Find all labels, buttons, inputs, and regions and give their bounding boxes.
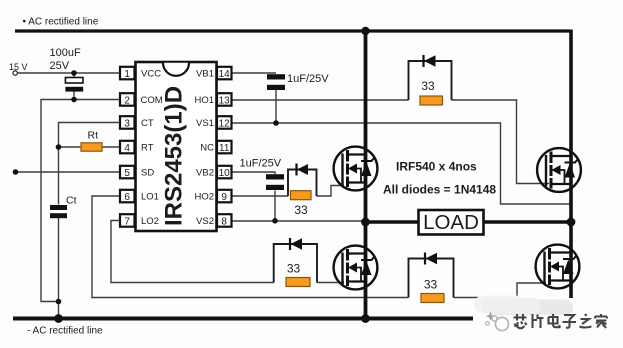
svg-text:1: 1 bbox=[124, 69, 130, 80]
gate network D (LO1): loop wire bbox=[409, 259, 454, 298]
svg-text:14: 14 bbox=[219, 69, 231, 80]
pin 7 box bbox=[120, 214, 135, 227]
node COM/CT bottom junction bbox=[56, 299, 62, 305]
watermark logo small dot bbox=[486, 322, 490, 326]
left bridge leg rail bbox=[364, 31, 368, 319]
svg-text:25V: 25V bbox=[50, 60, 70, 72]
gate network C (LO2): loop wire bbox=[274, 244, 317, 283]
wire LO2 pin7 route to bottom-left gate network bbox=[111, 221, 274, 283]
svg-text:3: 3 bbox=[124, 118, 130, 129]
watermark text 之 bbox=[580, 314, 592, 328]
wire VS1 pin12 to right half-bridge midpoint bbox=[232, 123, 571, 204]
node C2/VS2 junction bbox=[272, 218, 278, 224]
capacitor C1 1uF/25V bootstrap bbox=[267, 74, 285, 90]
svg-text:33: 33 bbox=[424, 278, 438, 292]
svg-text:6: 6 bbox=[124, 192, 130, 203]
IC U1 IRS2453(1)D bbox=[120, 62, 232, 231]
wire LO2 gate network to Q3 gate bbox=[317, 282, 344, 284]
svg-text:Rt: Rt bbox=[88, 130, 99, 142]
wire 100uF cap top lead bbox=[73, 73, 75, 78]
svg-text:VCC: VCC bbox=[141, 69, 161, 80]
wire VB2 pin10 to bootstrap cap C2 bbox=[232, 172, 276, 174]
svg-text:4: 4 bbox=[124, 143, 130, 154]
svg-text:33: 33 bbox=[287, 262, 301, 276]
node C1/VS1 junction bbox=[273, 120, 279, 126]
svg-text:VB1: VB1 bbox=[196, 69, 214, 80]
svg-text:CT: CT bbox=[141, 118, 154, 129]
svg-text:LOAD: LOAD bbox=[423, 211, 479, 234]
positive AC rectified bus (top rail) bbox=[15, 29, 570, 32]
node CT/RT junction bbox=[56, 144, 62, 150]
node right bridge midpoint bbox=[567, 218, 576, 227]
svg-text:IRF540 x 4nos: IRF540 x 4nos bbox=[396, 160, 477, 174]
svg-text:HO1: HO1 bbox=[194, 95, 214, 106]
node VCC junction bbox=[71, 70, 77, 76]
watermark text 家 bbox=[595, 314, 607, 328]
node top rail / left leg junction bbox=[361, 27, 369, 35]
right bridge leg rail bbox=[569, 30, 573, 299]
svg-text:LO2: LO2 bbox=[141, 216, 159, 227]
transistor Q2 IRF540 top-right bbox=[537, 148, 581, 192]
pin 4 box bbox=[120, 141, 135, 154]
wire HO1 pin13 to top gate network bbox=[232, 99, 409, 101]
pin 12 box bbox=[217, 116, 232, 129]
capacitor C2 1uF/25V bootstrap bbox=[266, 174, 284, 190]
svg-text:12: 12 bbox=[219, 118, 231, 129]
svg-text:2: 2 bbox=[124, 95, 130, 106]
pin 9 box bbox=[217, 190, 232, 203]
pin 5 box bbox=[120, 166, 135, 179]
wire COM pin2 to left vertical bus bbox=[41, 100, 120, 302]
svg-text:13: 13 bbox=[219, 95, 231, 106]
pin 11 box bbox=[217, 141, 232, 154]
wire Rt right lead to RT pin4 bbox=[102, 146, 120, 148]
svg-text:LO1: LO1 bbox=[141, 192, 159, 203]
LOAD box bbox=[367, 210, 571, 235]
node 15V terminal circle bbox=[13, 71, 17, 75]
wire 100uF cap bottom lead to COM node bbox=[73, 91, 75, 100]
wire C2 bottom lead to VS2 line bbox=[274, 191, 276, 221]
diode D1 bbox=[424, 55, 436, 67]
wire HO2 gate network to Q1 gate bbox=[317, 186, 345, 197]
wire SD pin5 stub bbox=[16, 171, 121, 173]
pin 10 box bbox=[217, 166, 232, 179]
transistor Q4 IRF540 bottom-right bbox=[536, 245, 580, 289]
diode D3 bbox=[290, 238, 302, 250]
gate network A (HO1): loop wire bbox=[409, 61, 452, 100]
svg-text:RT: RT bbox=[141, 143, 154, 154]
wire LO1 pin6 route to bottom-right gate network bbox=[92, 196, 409, 298]
pin 8 box bbox=[217, 214, 232, 227]
wire HO1 gate network to Q2 gate bbox=[452, 100, 550, 184]
svg-text:SD: SD bbox=[141, 168, 154, 179]
svg-text:33: 33 bbox=[421, 79, 435, 93]
svg-text:15 V: 15 V bbox=[9, 62, 28, 72]
watermark logo face bbox=[495, 317, 508, 330]
resistor 33 (D) bbox=[421, 294, 444, 303]
watermark text 芯 bbox=[514, 314, 527, 328]
wire C1 bottom lead to VS1 line bbox=[275, 90, 277, 123]
node COM junction bbox=[71, 97, 77, 103]
wire LO1 gate network to Q4 gate bbox=[454, 283, 547, 298]
watermark text 子 bbox=[563, 315, 577, 328]
diode D4 bbox=[425, 253, 437, 265]
resistor 33 (C) bbox=[286, 278, 310, 287]
gate network B (HO2): loop wire bbox=[288, 170, 317, 197]
watermark text 电 bbox=[549, 314, 560, 327]
watermark text 片 bbox=[533, 314, 544, 328]
capacitor 100uF electrolytic bbox=[65, 78, 83, 92]
svg-text:100uF: 100uF bbox=[50, 47, 81, 59]
blur patch left bbox=[474, 296, 524, 314]
pin 2 box bbox=[120, 93, 135, 106]
resistor 33 (B) bbox=[291, 191, 312, 200]
svg-text:8: 8 bbox=[221, 216, 227, 227]
svg-text:33: 33 bbox=[294, 203, 308, 217]
node bottom rail / left leg junction bbox=[361, 314, 370, 323]
svg-text:• AC rectified line: • AC rectified line bbox=[23, 17, 99, 28]
svg-text:5: 5 bbox=[124, 168, 130, 179]
pin 6 box bbox=[120, 190, 135, 203]
wire CT pin3 to Ct node bbox=[59, 123, 121, 205]
svg-text:- AC rectified line: - AC rectified line bbox=[27, 326, 103, 337]
node left bridge midpoint bbox=[361, 218, 370, 227]
transistor Q3 IRF540 bottom-left bbox=[334, 246, 378, 290]
capacitor Ct bbox=[50, 205, 67, 218]
pin 3 box bbox=[120, 116, 135, 129]
diode D2 bbox=[297, 164, 309, 176]
svg-text:VS1: VS1 bbox=[196, 118, 214, 129]
pin 14 box bbox=[217, 67, 232, 80]
wire HO2 pin9 to mid gate network bbox=[232, 195, 289, 197]
svg-text:7: 7 bbox=[124, 216, 130, 227]
blur patch mid bbox=[481, 298, 541, 314]
svg-text:1uF/25V: 1uF/25V bbox=[240, 158, 282, 170]
negative AC rectified bus (bottom rail) bbox=[13, 317, 473, 321]
svg-text:10: 10 bbox=[219, 168, 231, 179]
pin 13 box bbox=[217, 93, 232, 106]
svg-text:IRS2453(1)D: IRS2453(1)D bbox=[161, 86, 188, 226]
svg-text:Ct: Ct bbox=[66, 195, 77, 207]
blur patch right bbox=[488, 300, 573, 316]
watermark logo ear bbox=[492, 316, 497, 321]
svg-text:HO2: HO2 bbox=[194, 192, 214, 203]
resistor 33 (A) bbox=[420, 96, 443, 105]
resistor Rt bbox=[81, 143, 102, 151]
wire Ct bottom to negative rail bbox=[58, 218, 60, 318]
watermark logo sparkle bbox=[486, 312, 495, 321]
svg-text:All diodes = 1N4148: All diodes = 1N4148 bbox=[383, 183, 496, 197]
pin 1 box bbox=[120, 67, 135, 80]
svg-text:9: 9 bbox=[221, 192, 227, 203]
node bottom rail / CT bus junction bbox=[54, 314, 63, 323]
wire VB1 pin14 to bootstrap cap C1 bbox=[232, 72, 277, 74]
wire VS2 pin8 to left half-bridge midpoint bbox=[232, 220, 366, 222]
svg-text:1uF/25V: 1uF/25V bbox=[287, 73, 329, 85]
svg-text:NC: NC bbox=[200, 143, 214, 154]
transistor Q1 IRF540 top-left bbox=[334, 147, 378, 191]
wire 15V supply to VCC pin1 bbox=[18, 72, 121, 74]
svg-text:COM: COM bbox=[141, 95, 163, 106]
svg-text:11: 11 bbox=[219, 143, 230, 154]
node SD terminal bbox=[13, 169, 19, 175]
wire Rt left lead to CT node bbox=[59, 146, 82, 148]
svg-text:VB2: VB2 bbox=[196, 168, 214, 179]
svg-text:VS2: VS2 bbox=[196, 216, 214, 227]
